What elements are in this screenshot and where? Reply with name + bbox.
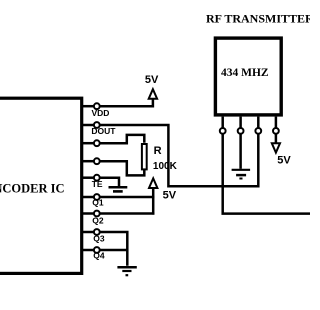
svg-text:VDD: VDD bbox=[92, 108, 110, 118]
pin TE circle bbox=[94, 175, 100, 181]
pin Q1 circle bbox=[94, 194, 100, 200]
svg-text:Q3: Q3 bbox=[93, 234, 105, 244]
RF pin 3 circle bbox=[255, 128, 261, 134]
wire pin3 to resistor top (staircase) bbox=[100, 135, 144, 143]
pin 3 stub bbox=[81, 142, 93, 145]
wire DOUT net: right, down, right, up to RF pin 3 bbox=[100, 125, 258, 186]
svg-text:5V: 5V bbox=[145, 74, 159, 86]
svg-text:RF TRANSMITTER: RF TRANSMITTER bbox=[206, 11, 310, 25]
ground at RF pin2: bar 2 bbox=[236, 174, 246, 177]
ground at RF pin2: dot bbox=[239, 178, 242, 180]
svg-text:DOUT: DOUT bbox=[91, 126, 116, 136]
RF pin 1 circle bbox=[220, 128, 226, 134]
wire Q2 to 5V stem bbox=[100, 212, 154, 215]
svg-text:434 MHZ: 434 MHZ bbox=[221, 67, 269, 79]
wire Q1 to 5V stem bbox=[100, 196, 154, 199]
pin Q3 stub bbox=[81, 231, 93, 234]
svg-text:Q1: Q1 bbox=[92, 197, 104, 207]
ground at RF pin2: bar 1 bbox=[232, 169, 251, 171]
wire TE to ground bbox=[100, 178, 119, 186]
RF pin 4 stub bbox=[275, 117, 278, 128]
RF transmitter U2 box bbox=[215, 38, 281, 115]
ground at TE: bar 1 bbox=[109, 186, 128, 189]
svg-text:5V: 5V bbox=[163, 189, 177, 201]
svg-text:TE: TE bbox=[92, 179, 103, 189]
pin 4 stub bbox=[81, 160, 93, 163]
wire Q4 joining stem bbox=[100, 249, 129, 252]
pin 4 circle bbox=[94, 158, 100, 164]
pin Q4 circle bbox=[94, 247, 100, 253]
ground at Q3/Q4: bar 2 bbox=[122, 270, 131, 272]
svg-text:5V: 5V bbox=[277, 154, 291, 166]
wire VDD to 5V arrow bbox=[100, 99, 153, 107]
ground at TE: bar 2 bbox=[113, 190, 123, 193]
pin Q4 stub bbox=[81, 249, 93, 252]
power 5V arrowhead (down) at RF pin4 bbox=[272, 143, 280, 152]
RF pin 1 stub bbox=[221, 117, 224, 128]
svg-text:100K: 100K bbox=[153, 161, 178, 172]
pin 3 circle bbox=[94, 140, 100, 146]
pin Q2 circle bbox=[94, 211, 100, 217]
RF pin 4 circle bbox=[273, 128, 279, 134]
wire Q3/Q4 to ground bbox=[100, 232, 127, 266]
pin VDD circle bbox=[94, 103, 100, 109]
power 5V stem (RF pin4, down) bbox=[275, 134, 278, 143]
pin DOUT stub bbox=[81, 124, 93, 127]
encoder IC U1 (box, left edge cut off) bbox=[0, 98, 82, 273]
pin DOUT circle bbox=[94, 122, 100, 128]
svg-text:Q4: Q4 bbox=[93, 250, 105, 260]
RF pin 2 stub bbox=[239, 117, 242, 128]
pin Q2 stub bbox=[81, 212, 93, 215]
pin VDD stub bbox=[81, 105, 93, 108]
wire pin4 to resistor bottom (staircase) bbox=[100, 161, 144, 175]
pin TE stub bbox=[81, 176, 93, 179]
resistor R body bbox=[142, 144, 147, 169]
pin Q3 circle bbox=[94, 229, 100, 235]
power 5V arrowhead (up) at Q1/Q2 bbox=[149, 178, 157, 188]
ground at Q3/Q4: dot bbox=[126, 274, 129, 276]
RF pin 2 circle bbox=[238, 128, 244, 134]
pin Q1 stub bbox=[81, 196, 93, 199]
svg-text:Q2: Q2 bbox=[92, 216, 104, 226]
ground at Q3/Q4: bar 1 bbox=[117, 266, 136, 269]
svg-text:R: R bbox=[154, 145, 162, 157]
RF pin 3 stub bbox=[257, 117, 260, 128]
wire RF pin2 to ground bbox=[239, 134, 242, 169]
svg-text:ENCODER IC: ENCODER IC bbox=[0, 181, 65, 195]
wire RF pin1 antenna: down then right to edge bbox=[223, 134, 310, 213]
power 5V arrowhead (up) at VDD bbox=[149, 89, 157, 99]
power 5V stem (TE area) bbox=[152, 188, 155, 215]
